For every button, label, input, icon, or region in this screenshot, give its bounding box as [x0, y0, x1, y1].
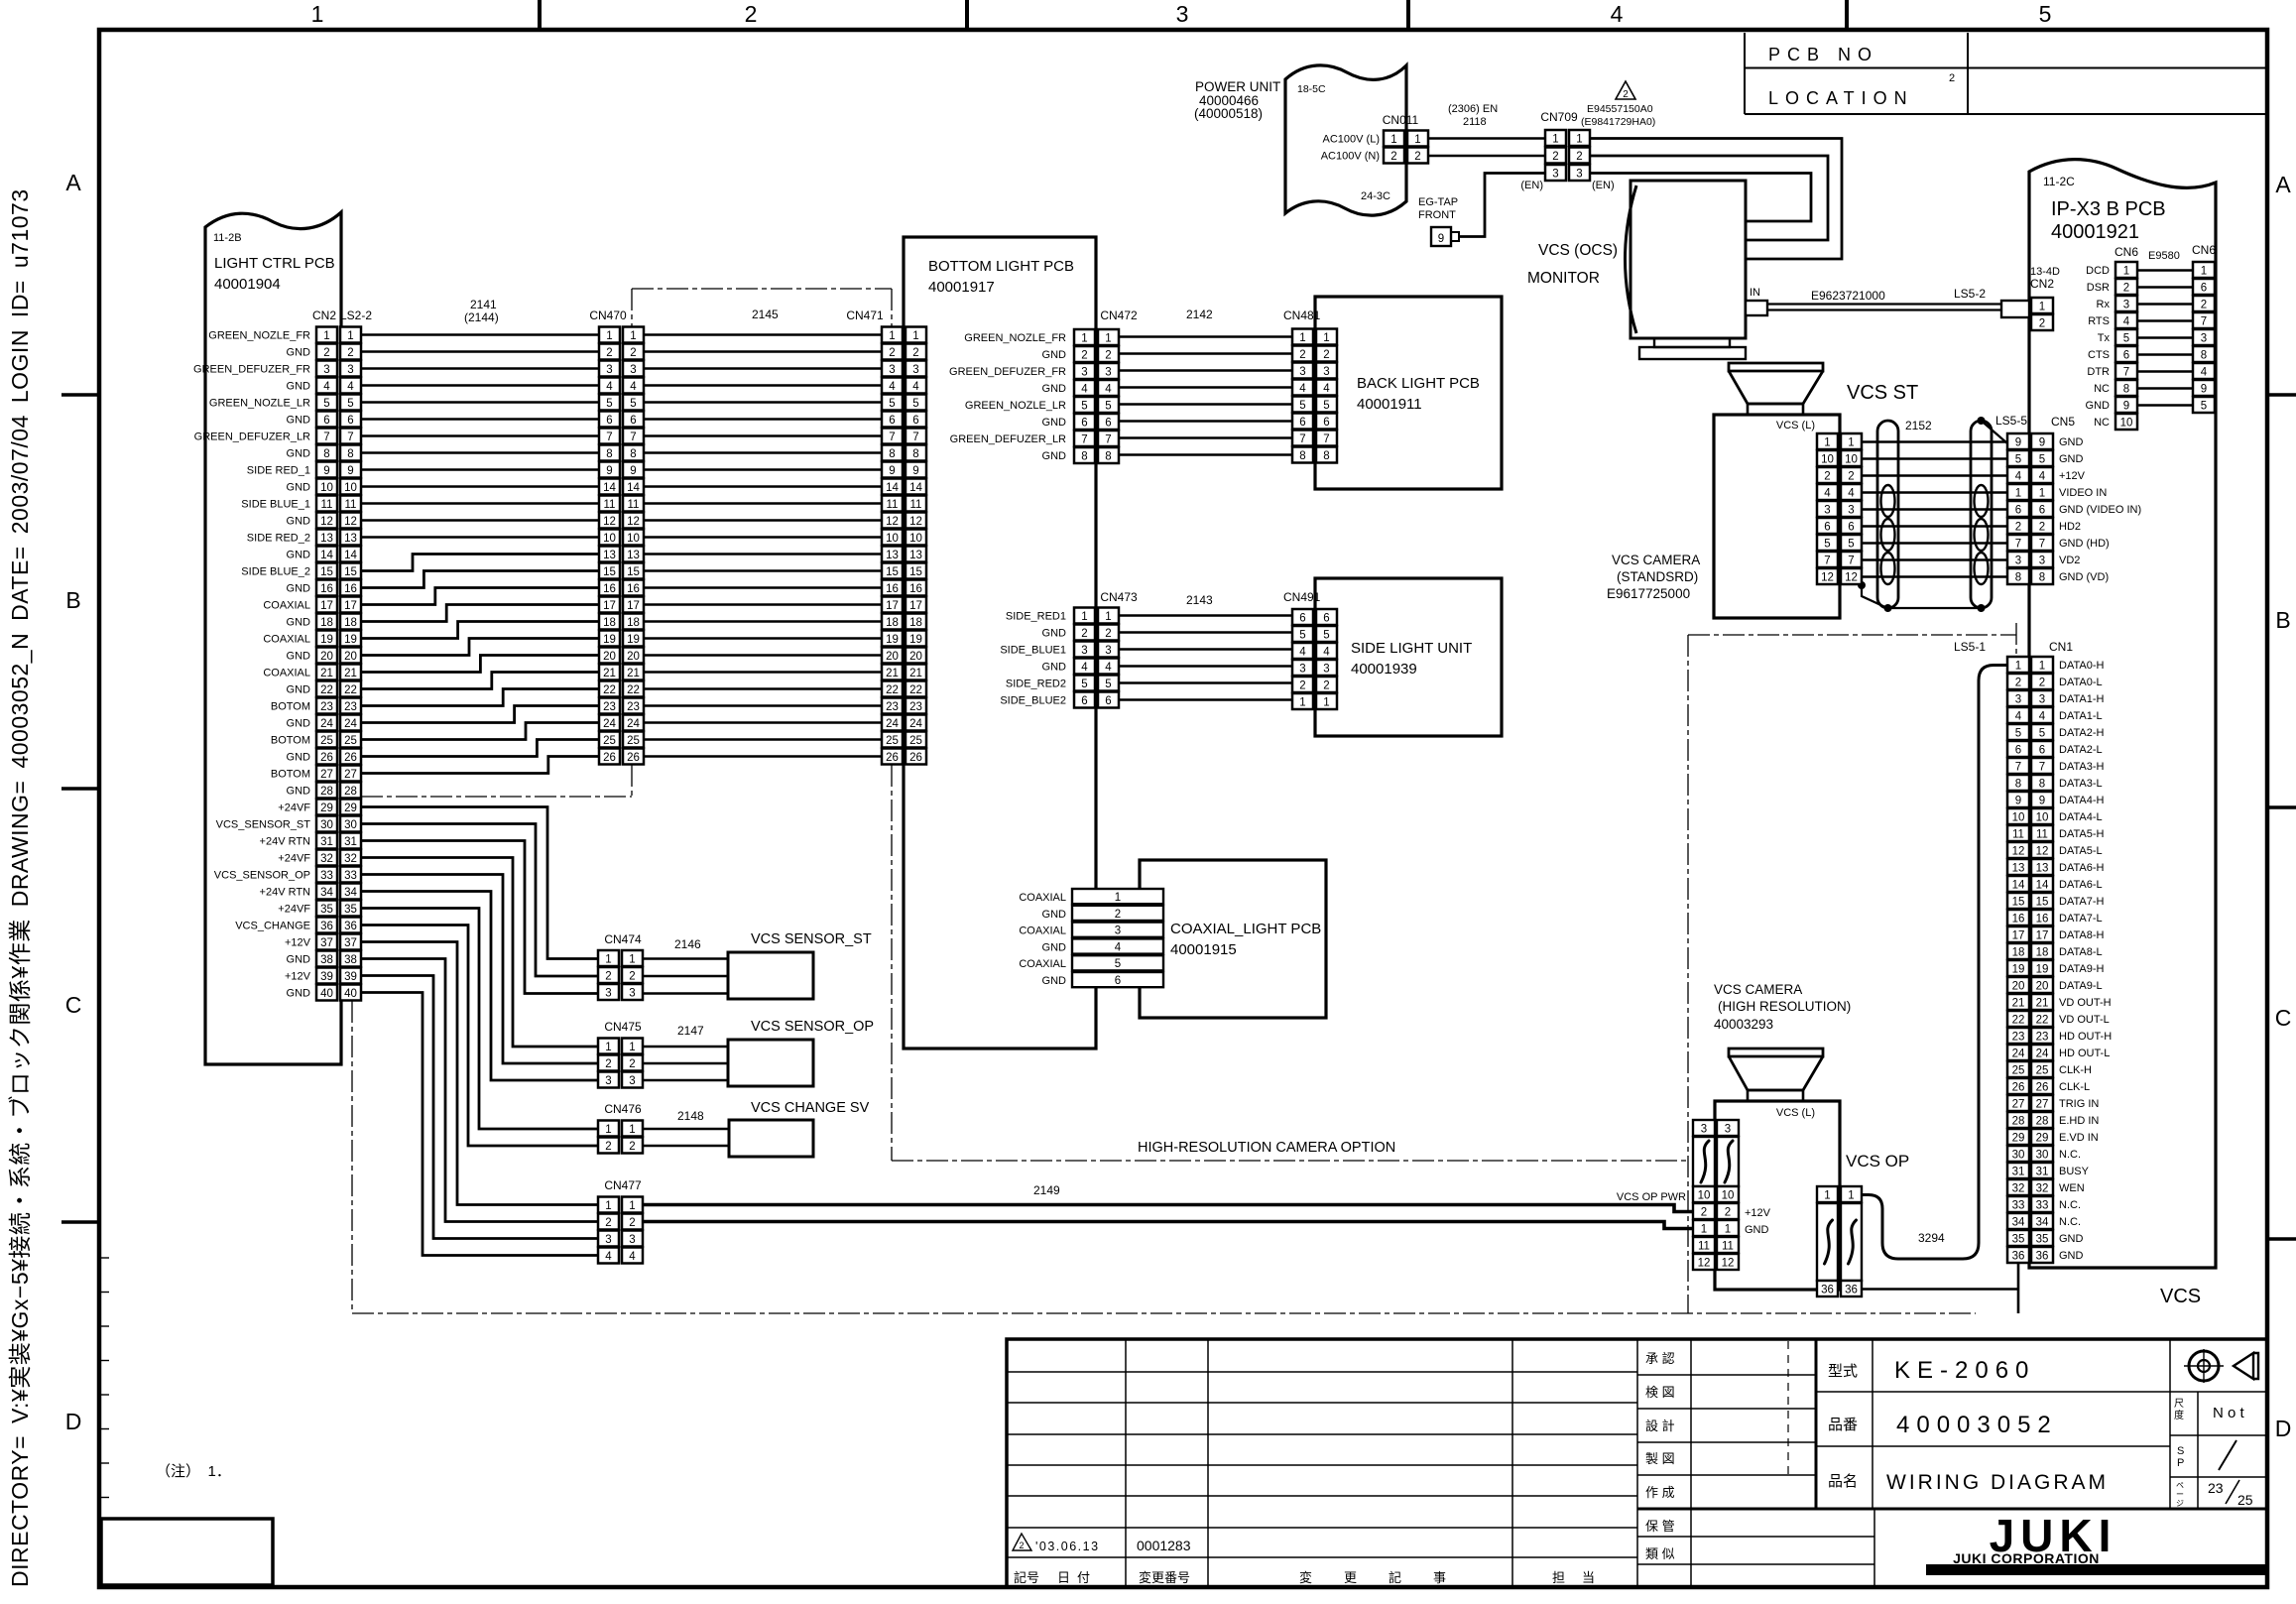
- svg-text:8: 8: [912, 448, 918, 460]
- svg-text:3: 3: [629, 1234, 635, 1246]
- svg-text:5: 5: [1299, 400, 1305, 412]
- svg-text:SIDE_RED2: SIDE_RED2: [1006, 679, 1066, 690]
- svg-text:LIGHT CTRL PCB: LIGHT CTRL PCB: [214, 255, 335, 272]
- wires CN474 to VCS SENSOR_ST: [644, 959, 728, 994]
- svg-text:GND (VIDEO IN): GND (VIDEO IN): [2059, 504, 2141, 516]
- pin labels CN6 left: [2086, 265, 2111, 429]
- connector CN1: [2007, 657, 2053, 1263]
- svg-text:BACK LIGHT PCB: BACK LIGHT PCB: [1357, 375, 1480, 392]
- svg-text:WIRING DIAGRAM: WIRING DIAGRAM: [1886, 1471, 2109, 1494]
- svg-text:GND: GND: [2059, 1250, 2084, 1262]
- svg-text:+24V RTN: +24V RTN: [260, 887, 311, 899]
- approval table: [1637, 1339, 2267, 1587]
- svg-text:GND: GND: [2086, 400, 2111, 412]
- svg-text:13: 13: [344, 533, 357, 545]
- svg-text:HIGH-RESOLUTION CAMERA OPTION: HIGH-RESOLUTION CAMERA OPTION: [1138, 1140, 1395, 1156]
- svg-text:26: 26: [2036, 1082, 2049, 1094]
- svg-text:11: 11: [321, 499, 333, 511]
- svg-text:IP-X3 B PCB: IP-X3 B PCB: [2051, 198, 2166, 220]
- svg-text:7: 7: [2123, 367, 2129, 379]
- COAXIAL LIGHT PCB outline: [1140, 860, 1326, 1018]
- svg-text:5: 5: [1299, 630, 1305, 642]
- svg-text:ジ: ジ: [2176, 1499, 2184, 1508]
- svg-text:1: 1: [889, 330, 895, 342]
- svg-text:35: 35: [344, 904, 357, 916]
- svg-text:6: 6: [1848, 522, 1854, 534]
- svg-text:40001939: 40001939: [1351, 661, 1417, 678]
- svg-text:DATA1-L: DATA1-L: [2059, 710, 2103, 722]
- svg-text:GND: GND: [2059, 1233, 2084, 1245]
- svg-text:3: 3: [605, 1234, 611, 1246]
- svg-text:26: 26: [886, 752, 899, 764]
- grid column numbers: [311, 1, 2052, 27]
- svg-text:A: A: [2275, 172, 2291, 197]
- svg-text:12: 12: [886, 516, 899, 528]
- svg-text:5: 5: [1848, 539, 1854, 551]
- svg-text:VCS CAMERA: VCS CAMERA: [1612, 553, 1700, 567]
- svg-text:16: 16: [2012, 914, 2025, 925]
- svg-text:2147: 2147: [677, 1024, 704, 1038]
- svg-text:GND: GND: [287, 684, 311, 696]
- svg-text:2: 2: [629, 1058, 635, 1070]
- svg-text:4: 4: [889, 381, 896, 393]
- svg-text:21: 21: [2036, 998, 2049, 1010]
- svg-text:11: 11: [2036, 829, 2048, 841]
- svg-text:7: 7: [1824, 555, 1830, 567]
- svg-text:製 図: 製 図: [1645, 1451, 1675, 1466]
- svg-text:CN471: CN471: [846, 308, 884, 322]
- svg-text:9: 9: [2123, 401, 2129, 413]
- svg-text:SIDE RED_2: SIDE RED_2: [247, 533, 310, 545]
- svg-text:31: 31: [2012, 1167, 2025, 1178]
- svg-text:7: 7: [2039, 539, 2045, 551]
- connector CN476: [598, 1121, 643, 1154]
- svg-text:25: 25: [2036, 1065, 2049, 1077]
- svg-text:(2144): (2144): [464, 310, 499, 324]
- svg-text:GREEN_DEFUZER_FR: GREEN_DEFUZER_FR: [193, 364, 310, 376]
- svg-text:2: 2: [1552, 151, 1558, 163]
- svg-text:1: 1: [1701, 1224, 1707, 1236]
- svg-text:20: 20: [344, 651, 357, 663]
- cable 3294 VCS OP to CN1: [1862, 666, 2007, 1260]
- svg-text:36: 36: [1821, 1285, 1834, 1296]
- svg-text:6: 6: [630, 415, 636, 427]
- svg-text:15: 15: [2012, 897, 2025, 909]
- svg-text:GND: GND: [1745, 1224, 1769, 1236]
- svg-text:MONITOR: MONITOR: [1527, 270, 1600, 287]
- svg-text:17: 17: [603, 600, 616, 612]
- svg-text:4: 4: [1105, 662, 1112, 674]
- wire bundle 2141 LS2-2 to CN470 straight pins 1-13: [361, 335, 599, 538]
- svg-text:23: 23: [320, 701, 333, 713]
- svg-text:NC: NC: [2094, 417, 2110, 429]
- VCS CHANGE SV box: [729, 1100, 870, 1157]
- svg-text:2118: 2118: [1463, 116, 1487, 128]
- svg-text:10: 10: [1722, 1190, 1735, 1202]
- svg-text:GND: GND: [287, 550, 311, 561]
- svg-text:17: 17: [320, 600, 333, 612]
- svg-text:CN470: CN470: [589, 308, 627, 322]
- dash-dot boundary cable 2145 upper: [632, 289, 892, 326]
- svg-text:4: 4: [1299, 383, 1306, 395]
- svg-text:3: 3: [323, 364, 329, 376]
- svg-text:8: 8: [889, 448, 895, 460]
- svg-text:COAXIAL_LIGHT PCB: COAXIAL_LIGHT PCB: [1170, 921, 1321, 937]
- svg-text:4: 4: [2201, 367, 2208, 379]
- svg-text:2: 2: [2015, 522, 2021, 534]
- svg-text:15: 15: [2036, 897, 2049, 909]
- right row ticks: [2267, 395, 2296, 1239]
- svg-text:DATA1-H: DATA1-H: [2059, 693, 2104, 705]
- svg-text:DATA6-H: DATA6-H: [2059, 862, 2104, 874]
- wire staircase LS2-2 pins 15-27 to CN470: [361, 555, 599, 774]
- svg-text:25: 25: [320, 735, 333, 747]
- svg-text:2: 2: [2015, 678, 2021, 689]
- svg-text:28: 28: [344, 786, 357, 798]
- svg-text:21: 21: [2012, 998, 2025, 1010]
- svg-text:36: 36: [1845, 1285, 1858, 1296]
- svg-text:B: B: [2275, 607, 2290, 633]
- svg-text:BOTOM: BOTOM: [271, 735, 310, 747]
- connector VCS OP 36pin high-res right: [1817, 1186, 1862, 1296]
- svg-text:24: 24: [2012, 1049, 2025, 1060]
- svg-text:記: 記: [1389, 1570, 1401, 1585]
- svg-text:CN6: CN6: [2192, 243, 2216, 257]
- svg-text:16: 16: [603, 583, 616, 595]
- svg-text:LS5-1: LS5-1: [1954, 640, 1986, 654]
- svg-text:HD2: HD2: [2059, 521, 2081, 533]
- svg-text:1: 1: [605, 1124, 611, 1136]
- svg-text:3: 3: [2015, 694, 2021, 706]
- connector CN473: [1074, 608, 1119, 708]
- svg-text:2: 2: [1414, 151, 1420, 163]
- svg-text:3: 3: [630, 364, 636, 376]
- svg-text:24: 24: [603, 718, 616, 730]
- svg-text:3: 3: [2039, 555, 2045, 567]
- svg-text:N o t: N o t: [2213, 1405, 2245, 1421]
- svg-text:DATA2-L: DATA2-L: [2059, 744, 2103, 756]
- svg-text:7: 7: [1848, 555, 1854, 567]
- svg-text:7: 7: [1299, 433, 1305, 445]
- svg-text:7: 7: [1323, 433, 1329, 445]
- svg-text:4: 4: [2015, 711, 2022, 723]
- coaxial light connector: [1019, 889, 1163, 987]
- svg-text:GND: GND: [287, 752, 311, 764]
- svg-text:1: 1: [1390, 134, 1396, 146]
- svg-text:14: 14: [627, 482, 640, 494]
- svg-text:GND: GND: [287, 482, 311, 494]
- svg-text:2: 2: [1701, 1207, 1707, 1219]
- svg-text:16: 16: [627, 583, 640, 595]
- svg-text:9: 9: [347, 465, 353, 477]
- svg-text:30: 30: [2012, 1150, 2025, 1162]
- svg-text:7: 7: [889, 432, 895, 443]
- svg-text:10: 10: [2036, 812, 2049, 824]
- svg-text:6: 6: [1299, 417, 1305, 429]
- svg-text:8: 8: [1299, 450, 1305, 462]
- svg-text:17: 17: [909, 600, 922, 612]
- svg-text:DATA0-L: DATA0-L: [2059, 677, 2103, 688]
- svg-text:CN481: CN481: [1283, 308, 1321, 322]
- svg-text:34: 34: [2012, 1217, 2025, 1229]
- svg-text:4: 4: [347, 381, 354, 393]
- svg-text:17: 17: [2012, 930, 2025, 942]
- svg-text:ー: ー: [2176, 1490, 2184, 1499]
- svg-text:6: 6: [2015, 745, 2021, 757]
- svg-text:1: 1: [1848, 437, 1854, 449]
- svg-text:8: 8: [1081, 451, 1087, 463]
- svg-text:3: 3: [1081, 367, 1087, 379]
- svg-text:1: 1: [1848, 1190, 1854, 1202]
- svg-text:8: 8: [1105, 451, 1111, 463]
- connector CN709: [1545, 130, 1590, 181]
- svg-text:CN2: CN2: [312, 308, 336, 322]
- svg-text:2: 2: [1725, 1207, 1731, 1219]
- svg-text:3: 3: [1323, 366, 1329, 378]
- svg-text:16: 16: [909, 583, 922, 595]
- svg-text:CLK-L: CLK-L: [2059, 1081, 2090, 1093]
- svg-text:2: 2: [2123, 283, 2129, 295]
- svg-text:33: 33: [344, 870, 357, 882]
- wires CN476 to VCS CHANGE SV: [644, 1129, 729, 1146]
- svg-text:A: A: [65, 170, 81, 195]
- svg-text:2: 2: [1390, 151, 1396, 163]
- svg-text:10: 10: [2120, 418, 2133, 430]
- wire routing LS2-2 pins 29-40 down to CN474-CN477: [361, 807, 598, 1256]
- svg-text:1: 1: [1824, 1190, 1830, 1202]
- svg-text:DATA3-L: DATA3-L: [2059, 778, 2103, 790]
- svg-text:40003052: 40003052: [1896, 1412, 2058, 1438]
- svg-text:6: 6: [2015, 505, 2021, 517]
- svg-text:28: 28: [2036, 1116, 2049, 1128]
- svg-text:26: 26: [627, 752, 640, 764]
- svg-text:37: 37: [344, 937, 357, 949]
- svg-text:3: 3: [605, 988, 611, 1000]
- svg-text:VCS (L): VCS (L): [1776, 1107, 1815, 1119]
- svg-text:15: 15: [909, 566, 922, 578]
- svg-text:15: 15: [320, 566, 333, 578]
- svg-text:38: 38: [320, 954, 333, 966]
- svg-text:5: 5: [1105, 679, 1111, 690]
- JUKI corporation logo: [1926, 1510, 2267, 1575]
- svg-text:VD2: VD2: [2059, 555, 2080, 566]
- svg-text:4: 4: [1323, 383, 1330, 395]
- svg-text:(2306) EN: (2306) EN: [1448, 103, 1498, 115]
- svg-text:40: 40: [320, 988, 333, 1000]
- svg-text:25: 25: [2237, 1492, 2253, 1508]
- svg-text:14: 14: [909, 482, 922, 494]
- svg-text:9: 9: [2015, 437, 2021, 449]
- svg-text:記号: 記号: [1014, 1570, 1039, 1585]
- svg-text:2: 2: [1848, 471, 1854, 483]
- svg-text:12: 12: [909, 516, 922, 528]
- svg-text:9: 9: [606, 465, 612, 477]
- svg-text:SIDE RED_1: SIDE RED_1: [247, 465, 310, 477]
- svg-text:10: 10: [627, 533, 640, 545]
- svg-text:Rx: Rx: [2097, 299, 2111, 310]
- svg-text:3: 3: [889, 364, 895, 376]
- svg-text:GND: GND: [1042, 383, 1067, 395]
- svg-text:25: 25: [886, 735, 899, 747]
- svg-text:12: 12: [1698, 1258, 1711, 1270]
- connector CN472: [1074, 329, 1119, 463]
- svg-text:検 図: 検 図: [1645, 1385, 1675, 1400]
- connector CN491: [1292, 609, 1337, 709]
- left row ticks: [61, 395, 99, 1222]
- connector CN2 IP-X3: [2031, 298, 2053, 330]
- svg-text:作 成: 作 成: [1645, 1485, 1675, 1500]
- svg-text:13: 13: [627, 550, 640, 561]
- svg-text:CTS: CTS: [2088, 349, 2110, 361]
- svg-text:VCS_SENSOR_OP: VCS_SENSOR_OP: [214, 870, 310, 882]
- svg-text:40001917: 40001917: [928, 279, 995, 296]
- connector CN470: [599, 327, 644, 765]
- svg-text:(EN): (EN): [1520, 180, 1543, 191]
- dash-dot boundary high-resolution option left: [892, 765, 1688, 1161]
- svg-text:6: 6: [1105, 418, 1111, 430]
- svg-text:E.HD IN: E.HD IN: [2059, 1115, 2099, 1127]
- svg-text:13: 13: [603, 550, 616, 561]
- svg-text:GND: GND: [287, 651, 311, 663]
- svg-text:SIDE LIGHT UNIT: SIDE LIGHT UNIT: [1351, 640, 1472, 657]
- svg-text:23: 23: [2208, 1480, 2224, 1496]
- svg-text:24: 24: [2036, 1049, 2049, 1060]
- svg-text:VCS OP PWR: VCS OP PWR: [1617, 1191, 1686, 1203]
- svg-text:VCS SENSOR_ST: VCS SENSOR_ST: [751, 931, 872, 947]
- svg-text:2: 2: [1576, 151, 1582, 163]
- wire bundle 2143 CN473 to CN491: [1119, 616, 1292, 700]
- svg-text:12: 12: [603, 516, 616, 528]
- svg-text:型式: 型式: [1828, 1363, 1858, 1380]
- svg-text:CN477: CN477: [604, 1178, 642, 1192]
- svg-text:18: 18: [627, 617, 640, 629]
- svg-text:2: 2: [1299, 349, 1305, 361]
- svg-text:VCS SENSOR_OP: VCS SENSOR_OP: [751, 1019, 874, 1035]
- svg-text:25: 25: [909, 735, 922, 747]
- grid row letters right: [2275, 172, 2292, 1441]
- svg-text:28: 28: [2012, 1116, 2025, 1128]
- svg-text:32: 32: [344, 853, 357, 865]
- connector CN2 LS2-2: [316, 327, 361, 1001]
- svg-text:4: 4: [629, 1251, 636, 1263]
- svg-text:3: 3: [1105, 645, 1111, 657]
- svg-text:E9580: E9580: [2148, 250, 2180, 262]
- PCB NO LOCATION table: [1745, 33, 2267, 114]
- svg-text:3: 3: [629, 988, 635, 1000]
- svg-text:8: 8: [630, 448, 636, 460]
- svg-text:2149: 2149: [1033, 1183, 1060, 1197]
- svg-text:2: 2: [1105, 628, 1111, 640]
- svg-text:8: 8: [606, 448, 612, 460]
- svg-text:6: 6: [1824, 522, 1830, 534]
- bottom left small box: [101, 1519, 273, 1585]
- svg-text:6: 6: [1299, 613, 1305, 625]
- wire FG-TAP to CN709 pin3: [1459, 174, 1545, 237]
- svg-text:1: 1: [1105, 611, 1111, 623]
- svg-text:1: 1: [630, 330, 636, 342]
- svg-text:4: 4: [2015, 471, 2022, 483]
- svg-text:33: 33: [2036, 1200, 2049, 1212]
- svg-text:変更番号: 変更番号: [1139, 1570, 1190, 1585]
- svg-text:40: 40: [344, 988, 357, 1000]
- svg-text:20: 20: [320, 651, 333, 663]
- svg-text:4: 4: [1299, 647, 1306, 659]
- svg-text:35: 35: [2036, 1234, 2049, 1246]
- svg-text:22: 22: [909, 684, 922, 696]
- svg-text:1: 1: [605, 954, 611, 966]
- svg-text:4: 4: [1105, 384, 1112, 396]
- svg-text:PCB NO: PCB NO: [1768, 45, 1878, 64]
- svg-text:19: 19: [886, 634, 899, 646]
- svg-text:34: 34: [320, 887, 333, 899]
- svg-text:3: 3: [347, 364, 353, 376]
- svg-text:14: 14: [2036, 880, 2049, 892]
- svg-text:5: 5: [2039, 454, 2045, 466]
- svg-text:25: 25: [2012, 1065, 2025, 1077]
- svg-text:21: 21: [886, 668, 899, 679]
- svg-text:10: 10: [1821, 454, 1834, 466]
- svg-text:SIDE_BLUE1: SIDE_BLUE1: [1000, 645, 1066, 657]
- svg-text:2: 2: [630, 347, 636, 359]
- svg-text:10: 10: [344, 482, 357, 494]
- svg-text:CN2: CN2: [2030, 277, 2054, 291]
- svg-text:5: 5: [2123, 333, 2129, 345]
- svg-text:9: 9: [2039, 437, 2045, 449]
- svg-text:2148: 2148: [677, 1109, 704, 1123]
- svg-text:2146: 2146: [674, 937, 701, 951]
- svg-text:6: 6: [323, 415, 329, 427]
- svg-text:1: 1: [2015, 488, 2021, 500]
- svg-text:23: 23: [627, 701, 640, 713]
- svg-text:12: 12: [2036, 846, 2049, 858]
- svg-text:14: 14: [344, 550, 357, 561]
- svg-text:4: 4: [1848, 488, 1855, 500]
- svg-text:22: 22: [344, 684, 357, 696]
- svg-text:3: 3: [2015, 555, 2021, 567]
- svg-text:2: 2: [1105, 350, 1111, 362]
- dash-dot boundary high-res camera box: [1688, 623, 2016, 1313]
- svg-text:2: 2: [2039, 522, 2045, 534]
- svg-text:2152: 2152: [1905, 419, 1932, 432]
- svg-text:3: 3: [1323, 664, 1329, 676]
- svg-text:8: 8: [2015, 572, 2021, 584]
- svg-text:5: 5: [630, 398, 636, 410]
- svg-text:8: 8: [2015, 779, 2021, 791]
- svg-text:CN5: CN5: [2051, 415, 2075, 429]
- svg-text:16: 16: [344, 583, 357, 595]
- svg-text:'03.06.13: '03.06.13: [1035, 1540, 1100, 1553]
- connector CN471: [882, 327, 926, 765]
- svg-text:12: 12: [627, 516, 640, 528]
- svg-text:32: 32: [2036, 1183, 2049, 1195]
- svg-text:1: 1: [606, 330, 612, 342]
- svg-text:品番: 品番: [1828, 1417, 1858, 1433]
- svg-text:GND: GND: [287, 516, 311, 528]
- svg-text:DATA8-L: DATA8-L: [2059, 946, 2103, 958]
- svg-text:19: 19: [603, 634, 616, 646]
- svg-text:3: 3: [1701, 1124, 1707, 1136]
- svg-text:CN6: CN6: [2115, 245, 2138, 259]
- connector VCS OP PWR high-res left: [1693, 1120, 1771, 1270]
- svg-text:29: 29: [2036, 1133, 2049, 1145]
- svg-text:29: 29: [344, 802, 357, 814]
- svg-text:8: 8: [2201, 350, 2207, 362]
- svg-text:19: 19: [2012, 964, 2025, 976]
- svg-text:5: 5: [2015, 728, 2021, 740]
- svg-text:17: 17: [2036, 930, 2049, 942]
- connector CN475: [598, 1039, 643, 1088]
- wire shield to CN5 pin9 diagonal: [1982, 421, 2008, 443]
